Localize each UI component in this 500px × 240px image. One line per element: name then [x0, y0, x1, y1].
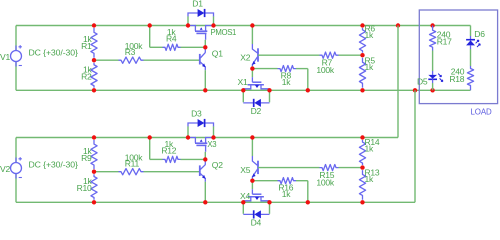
label D3	[191, 108, 202, 118]
transistor Q1 (NPN)	[200, 53, 206, 71]
value label DC source (top half)	[29, 48, 78, 58]
wire V2 top lead	[15, 138, 17, 163]
label D1	[192, 0, 203, 8]
label R7	[316, 57, 335, 75]
label PMOS1	[211, 28, 237, 37]
wire R16 drop to rail	[296, 181, 308, 203]
label Q1	[212, 48, 223, 58]
wire R7 to divider	[339, 54, 363, 56]
svg-text:V2: V2	[0, 164, 10, 174]
svg-text:1k: 1k	[282, 189, 292, 199]
wire top rail to R12	[150, 138, 163, 160]
resistor R8 (1k)	[278, 66, 297, 72]
svg-text:1k: 1k	[365, 143, 375, 153]
junction dots (bottom half)	[92, 135, 365, 204]
label Q2	[212, 160, 223, 170]
wire X2 emitter node	[251, 66, 253, 68]
wire bottom rail (bottom half)	[16, 201, 415, 203]
wire top rail corner to D6	[470, 26, 472, 37]
diode D3	[198, 119, 205, 127]
diode D2	[254, 99, 261, 107]
svg-text:D6: D6	[474, 29, 485, 39]
svg-text:D2: D2	[251, 106, 262, 116]
label R5	[365, 55, 376, 72]
wire R3 to Q1 base	[144, 59, 200, 61]
svg-text:R11: R11	[125, 159, 140, 169]
diode D4	[254, 210, 261, 218]
wire top rail (bottom half)	[16, 137, 398, 139]
voltage source V1	[11, 45, 22, 66]
svg-text:1k: 1k	[365, 30, 375, 40]
wire top rail (top half)	[16, 25, 471, 27]
label R14	[365, 137, 380, 154]
wire D1 loop top	[188, 13, 214, 16]
resistor R10 (1k)	[91, 174, 97, 200]
load box outline	[419, 10, 497, 104]
wire R11 to Q2 base	[144, 171, 200, 173]
svg-text:PMOS1: PMOS1	[211, 28, 237, 37]
wire node to R16	[252, 180, 277, 182]
svg-text:R10: R10	[77, 183, 92, 193]
label R10	[77, 176, 93, 193]
wire V2 bottom lead	[15, 174, 17, 203]
value label DC source (bottom half)	[29, 160, 78, 170]
svg-text:X3: X3	[207, 140, 216, 149]
label D6	[474, 29, 485, 39]
svg-text:Q1: Q1	[212, 48, 223, 58]
svg-text:R17: R17	[437, 36, 452, 46]
resistor R5 (1k)	[359, 58, 365, 88]
label X1	[238, 77, 248, 87]
svg-text:D4: D4	[251, 218, 262, 228]
resistor R13 (1k)	[359, 170, 365, 200]
label LOAD	[471, 108, 492, 117]
label R9	[81, 146, 92, 163]
label X2	[240, 52, 250, 62]
transistor X3 (PMOS)	[188, 138, 214, 152]
svg-text:1k: 1k	[365, 62, 375, 72]
label X3	[207, 140, 216, 149]
resistor R18 (240)	[467, 66, 473, 90]
resistor R3 (100k)	[119, 57, 144, 63]
resistor R6 (1k)	[359, 28, 365, 53]
svg-text:R2: R2	[81, 71, 92, 81]
wire gate node to Q2 collector	[204, 159, 206, 165]
wire top rail to bottom-half rail (x=398)	[397, 26, 399, 138]
resistor R11 (100k)	[119, 169, 144, 175]
junction dots (top half)	[92, 23, 435, 92]
svg-text:100k: 100k	[316, 65, 335, 75]
label D5	[417, 77, 428, 87]
label R1	[81, 34, 92, 51]
svg-text:X5: X5	[240, 165, 250, 175]
wire X4 gate lead	[251, 181, 253, 190]
svg-text:100k: 100k	[316, 178, 335, 188]
svg-text:DC {+30/-30}: DC {+30/-30}	[29, 160, 78, 170]
svg-text:V1: V1	[0, 52, 10, 62]
wire gate node to Q1 collector	[204, 47, 206, 53]
svg-text:X2: X2	[240, 52, 250, 62]
resistor R14 (1k)	[359, 140, 365, 165]
label R16	[278, 182, 293, 199]
label V1	[0, 52, 10, 62]
svg-text:1k: 1k	[365, 174, 375, 184]
label R11	[125, 153, 144, 169]
wire Q1 emitter to rail	[204, 70, 206, 90]
wire mid node to R3	[94, 59, 119, 61]
svg-text:DC {+30/-30}: DC {+30/-30}	[29, 48, 78, 58]
wire PMOS1 gate to node	[204, 40, 206, 48]
resistor R17 (240)	[430, 26, 436, 51]
label R4	[166, 27, 177, 44]
wire D1 loop legs	[188, 16, 214, 25]
diode D6 (LED)	[466, 36, 480, 49]
label R6	[365, 23, 376, 40]
wire D2 loop legs	[243, 90, 269, 102]
label V2	[0, 164, 10, 174]
transistor Q2 (NPN)	[200, 165, 206, 182]
svg-text:R12: R12	[161, 146, 176, 156]
svg-text:Q2: Q2	[212, 160, 223, 170]
wire load bottom to bottom-half rail (x=415)	[414, 90, 416, 202]
svg-text:R1: R1	[81, 41, 92, 51]
label R17	[437, 30, 452, 47]
wire top rail to X2 collector	[251, 26, 253, 45]
wire R12 to gate node	[181, 158, 206, 160]
wire Q2 emitter to rail	[204, 182, 206, 203]
label X4	[240, 191, 250, 201]
wire D3 loop top	[188, 123, 214, 126]
wire D2 loop leads	[243, 102, 269, 104]
transistor X1 (MOSFET)	[243, 77, 269, 89]
transistor X4 (MOSFET)	[243, 189, 269, 201]
diode D5 (LED)	[428, 71, 443, 83]
svg-text:D1: D1	[192, 0, 203, 8]
diode D1	[198, 9, 205, 17]
wire D6 to R18	[470, 49, 472, 66]
wire V1 bottom lead	[15, 62, 17, 91]
voltage source V2	[11, 157, 22, 178]
wire X1 gate lead	[251, 69, 253, 78]
resistor R7 (100k)	[320, 52, 339, 58]
svg-text:X4: X4	[240, 191, 250, 201]
label R2	[81, 64, 92, 81]
label R8	[281, 70, 292, 87]
svg-text:1k: 1k	[282, 77, 292, 87]
svg-text:R3: R3	[125, 47, 136, 57]
wire R15 to divider	[339, 167, 363, 169]
svg-text:R4: R4	[166, 34, 177, 44]
label R3	[125, 41, 144, 57]
wire X5 base to R15	[258, 167, 320, 169]
wire R4 to gate node	[181, 46, 206, 48]
resistor R1 (1k)	[91, 28, 97, 58]
svg-text:R9: R9	[81, 153, 92, 163]
label R12	[161, 139, 176, 156]
wire R17 to D5	[432, 51, 434, 72]
wire D4 loop legs	[243, 202, 269, 214]
wire mid node to R11	[94, 171, 119, 173]
transistor PMOS1 (PMOS)	[188, 26, 214, 40]
label D4	[251, 218, 262, 228]
resistor R15 (100k)	[320, 165, 339, 171]
wire node to R8	[252, 68, 277, 70]
svg-text:D5: D5	[417, 77, 428, 87]
wire D5 to rail	[432, 83, 434, 90]
wire X2 base to R7	[258, 54, 320, 56]
transistor X2 (NPN mirrored)	[252, 44, 258, 66]
transistor X5 (NPN mirrored)	[252, 156, 258, 179]
resistor R4 (1k)	[163, 44, 181, 50]
resistor R16 (1k)	[278, 178, 297, 184]
svg-text:D3: D3	[191, 108, 202, 118]
svg-text:R18: R18	[449, 74, 464, 84]
wire X3 gate to node	[204, 152, 206, 160]
resistor R9 (1k)	[91, 140, 97, 169]
wire D4 loop leads	[243, 213, 269, 215]
wire top rail to R4	[150, 26, 163, 48]
wire top rail to X5 collector	[251, 138, 253, 157]
wire V1 top lead	[15, 26, 17, 51]
label R13	[365, 168, 380, 185]
resistor R2 (1k)	[91, 63, 97, 88]
wire X5 emitter node	[251, 179, 253, 181]
resistor R12 (1k)	[163, 156, 181, 162]
wire D3 loop legs	[188, 126, 214, 137]
label D2	[251, 106, 262, 116]
svg-text:X1: X1	[238, 77, 248, 87]
svg-text:LOAD: LOAD	[471, 108, 492, 117]
label R18	[449, 67, 464, 85]
label R15	[316, 170, 335, 188]
label X5	[240, 165, 250, 175]
wire R8 drop to rail	[296, 69, 308, 91]
wire bottom rail (top half)	[16, 89, 471, 91]
